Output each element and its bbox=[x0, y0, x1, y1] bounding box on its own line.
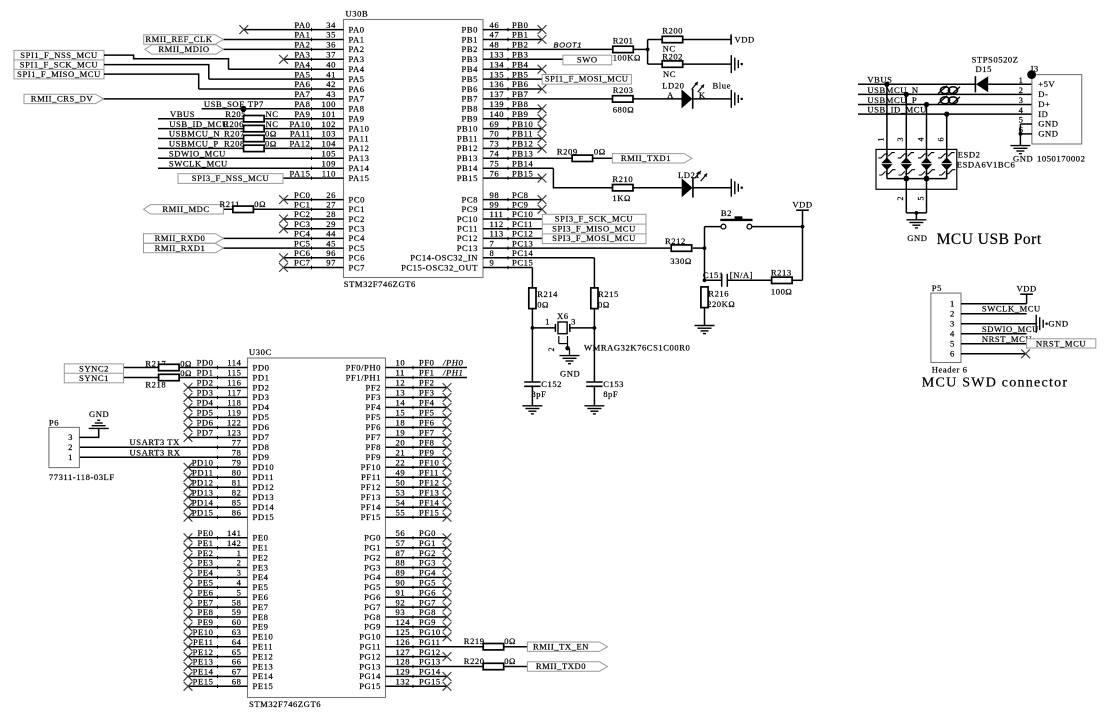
svg-text:PC3: PC3 bbox=[294, 219, 310, 229]
svg-text:PA10: PA10 bbox=[349, 123, 370, 133]
svg-text:PD14: PD14 bbox=[192, 497, 214, 507]
svg-text:139: 139 bbox=[490, 99, 505, 109]
svg-text:PF10: PF10 bbox=[361, 462, 381, 472]
svg-text:PA11: PA11 bbox=[349, 133, 370, 143]
svg-text:69: 69 bbox=[490, 119, 500, 129]
svg-text:46: 46 bbox=[490, 20, 500, 30]
svg-text:PB5: PB5 bbox=[512, 69, 528, 79]
svg-text:41: 41 bbox=[326, 69, 336, 79]
svg-text:R200: R200 bbox=[662, 25, 683, 35]
resistor R212 330ohm on PC13 bbox=[665, 236, 692, 266]
svg-text:0Ω: 0Ω bbox=[504, 636, 516, 646]
svg-text:PG12: PG12 bbox=[359, 651, 381, 661]
svg-text:U30C: U30C bbox=[249, 347, 272, 357]
svg-text:PF3: PF3 bbox=[419, 388, 435, 398]
svg-text:70: 70 bbox=[490, 129, 500, 139]
svg-text:PB11: PB11 bbox=[512, 129, 533, 139]
svg-text:PD10: PD10 bbox=[253, 462, 275, 472]
resistor R207 (USBMCU_N, 0ohm) on PA11 bbox=[169, 129, 277, 142]
svg-text:77311-118-03LF: 77311-118-03LF bbox=[49, 472, 115, 482]
svg-text:PB11: PB11 bbox=[457, 133, 478, 143]
svg-text:SPI3_F_SCK_MCU: SPI3_F_SCK_MCU bbox=[555, 214, 634, 224]
svg-text:PC7: PC7 bbox=[349, 262, 366, 272]
LED LD20 Blue bbox=[662, 80, 731, 109]
svg-text:B2: B2 bbox=[721, 208, 732, 218]
svg-text:PA3: PA3 bbox=[294, 50, 310, 60]
connector P5 Header 6 (SWD) bbox=[931, 283, 968, 374]
svg-text:74: 74 bbox=[490, 149, 500, 159]
svg-text:PD12: PD12 bbox=[253, 482, 275, 492]
svg-text:PG1: PG1 bbox=[364, 543, 381, 553]
svg-text:92: 92 bbox=[396, 597, 406, 607]
svg-text:PB8: PB8 bbox=[512, 99, 528, 109]
svg-text:D15: D15 bbox=[976, 64, 992, 74]
svg-text:127: 127 bbox=[396, 647, 411, 657]
svg-text:ESD2: ESD2 bbox=[958, 149, 981, 159]
svg-text:R218: R218 bbox=[145, 380, 166, 390]
resistor R202 (NC) bbox=[662, 51, 683, 79]
wire R203 to LED LD20 bbox=[633, 98, 682, 100]
svg-text:USBMCU_P: USBMCU_P bbox=[867, 95, 917, 105]
svg-text:PB7: PB7 bbox=[462, 94, 479, 104]
svg-text:0Ω: 0Ω bbox=[537, 300, 549, 310]
svg-text:PB3: PB3 bbox=[462, 54, 478, 64]
svg-text:0Ω: 0Ω bbox=[254, 199, 266, 209]
wire junction up to button B2 bbox=[704, 227, 706, 249]
svg-text:RMII_RXD0: RMII_RXD0 bbox=[155, 233, 206, 243]
svg-text:MCU USB Port: MCU USB Port bbox=[937, 231, 1042, 248]
svg-text:PE5: PE5 bbox=[253, 582, 269, 592]
svg-text:PE8: PE8 bbox=[253, 612, 269, 622]
svg-text:PE4: PE4 bbox=[198, 568, 214, 578]
svg-text:5: 5 bbox=[237, 587, 242, 597]
svg-text:20: 20 bbox=[396, 438, 406, 448]
svg-text:Blue: Blue bbox=[713, 80, 731, 90]
svg-text:PA8: PA8 bbox=[294, 99, 310, 109]
svg-text:PF10: PF10 bbox=[419, 458, 439, 468]
svg-text:PA4: PA4 bbox=[349, 64, 365, 74]
node RMII_MDIO (to PA2) bbox=[145, 44, 224, 54]
svg-text:PB15: PB15 bbox=[457, 173, 478, 183]
svg-text:PC12: PC12 bbox=[457, 233, 478, 243]
svg-text:PD15: PD15 bbox=[253, 512, 275, 522]
svg-text:5: 5 bbox=[916, 196, 925, 201]
svg-text:99: 99 bbox=[490, 200, 500, 210]
svg-text:PB6: PB6 bbox=[512, 79, 529, 89]
svg-text:PE15: PE15 bbox=[253, 681, 274, 691]
svg-text:1: 1 bbox=[877, 137, 886, 142]
svg-text:GND: GND bbox=[1038, 129, 1058, 139]
svg-text:PC11: PC11 bbox=[512, 219, 533, 229]
svg-text:GND: GND bbox=[1013, 154, 1033, 164]
svg-text:PC5: PC5 bbox=[349, 243, 365, 253]
svg-text:PF12: PF12 bbox=[361, 482, 381, 492]
svg-text:GND: GND bbox=[1038, 119, 1058, 129]
svg-text:76: 76 bbox=[490, 168, 500, 178]
svg-text:PG9: PG9 bbox=[364, 622, 381, 632]
svg-text:0Ω: 0Ω bbox=[265, 129, 277, 139]
svg-text:PB0: PB0 bbox=[462, 24, 478, 34]
svg-text:0Ω: 0Ω bbox=[594, 146, 606, 156]
svg-text:PE14: PE14 bbox=[253, 671, 274, 681]
svg-text:PF6: PF6 bbox=[419, 418, 435, 428]
svg-text:2: 2 bbox=[237, 558, 242, 568]
svg-text:128: 128 bbox=[396, 657, 411, 667]
svg-text:SPI3_F_MOSI_MCU: SPI3_F_MOSI_MCU bbox=[552, 233, 636, 243]
svg-text:PF9: PF9 bbox=[419, 448, 435, 458]
resistor R205 (VBUS, NC) on PA9 bbox=[170, 109, 279, 122]
svg-text:PD1: PD1 bbox=[253, 372, 270, 382]
resistor R216 220Kohm bbox=[701, 287, 735, 309]
svg-text:PE11: PE11 bbox=[193, 637, 214, 647]
svg-text:PG15: PG15 bbox=[419, 677, 441, 687]
svg-text:PE3: PE3 bbox=[198, 558, 214, 568]
svg-text:PG5: PG5 bbox=[419, 578, 436, 588]
junction dots on USB lines bbox=[884, 82, 949, 117]
wire LD20 cathode to ground bbox=[693, 98, 732, 100]
svg-text:PE9: PE9 bbox=[253, 622, 269, 632]
svg-text:PD7: PD7 bbox=[253, 432, 270, 442]
svg-text:PD4: PD4 bbox=[253, 402, 270, 412]
svg-text:102: 102 bbox=[321, 119, 336, 129]
svg-text:SPI3_F_NSS_MCU: SPI3_F_NSS_MCU bbox=[192, 173, 270, 183]
svg-text:PB9: PB9 bbox=[462, 114, 478, 124]
svg-text:RMII_MDIO: RMII_MDIO bbox=[158, 44, 209, 54]
svg-text:RMII_REF_CLK: RMII_REF_CLK bbox=[145, 34, 212, 44]
svg-text:R208: R208 bbox=[224, 139, 245, 149]
svg-text:PC10: PC10 bbox=[512, 209, 533, 219]
svg-text:97: 97 bbox=[326, 258, 336, 268]
svg-text:PF7: PF7 bbox=[365, 432, 381, 442]
svg-text:PD6: PD6 bbox=[253, 422, 270, 432]
wire junction down to C151 row bbox=[703, 248, 707, 282]
wire USB_ID_MCU net to J3 pin4 bbox=[858, 105, 1032, 115]
svg-text:9: 9 bbox=[490, 258, 495, 268]
wire P5 pin6 (n/c) bbox=[961, 349, 1030, 358]
resistor R215 0ohm bbox=[591, 288, 619, 310]
svg-text:R201: R201 bbox=[613, 36, 634, 46]
svg-text:PG14: PG14 bbox=[359, 671, 381, 681]
svg-text:PG10: PG10 bbox=[359, 632, 381, 642]
node RMII_RXD1 (to PC5) bbox=[144, 243, 224, 253]
wire VDD rail down to R213 bbox=[802, 227, 804, 281]
svg-text:48: 48 bbox=[490, 40, 500, 50]
wire P5 pin1 to VDD bbox=[961, 294, 1027, 304]
power VDD above P5 pin1 bbox=[1016, 284, 1036, 295]
ground (right of LD20) bbox=[730, 90, 732, 108]
svg-text:PG13: PG13 bbox=[419, 657, 441, 667]
svg-text:SPI3_F_MISO_MCU: SPI3_F_MISO_MCU bbox=[552, 223, 636, 233]
svg-text:77: 77 bbox=[232, 438, 242, 448]
svg-text:PA0: PA0 bbox=[294, 20, 310, 30]
svg-text:PD12: PD12 bbox=[192, 478, 214, 488]
svg-text:330Ω: 330Ω bbox=[670, 256, 691, 266]
svg-text:PB4: PB4 bbox=[462, 64, 479, 74]
svg-text:PE6: PE6 bbox=[253, 592, 269, 602]
svg-text:PF14: PF14 bbox=[419, 497, 440, 507]
svg-text:VBUS: VBUS bbox=[170, 109, 195, 119]
svg-text:PE0: PE0 bbox=[253, 533, 269, 543]
svg-text:PC14-OSC32_IN: PC14-OSC32_IN bbox=[410, 253, 478, 263]
svg-text:PF14: PF14 bbox=[361, 502, 382, 512]
svg-text:PC7: PC7 bbox=[294, 258, 311, 268]
svg-text:PB12: PB12 bbox=[512, 139, 533, 149]
svg-text:PA14: PA14 bbox=[349, 163, 370, 173]
svg-text:8pF: 8pF bbox=[603, 389, 618, 399]
svg-text:R213: R213 bbox=[771, 267, 792, 277]
wire SPI1_F_NSS_MCU to PA4 bbox=[104, 55, 229, 69]
svg-text:PC9: PC9 bbox=[512, 200, 528, 210]
wires USB nets down to ESD2 array (pins 1,3,4,6) bbox=[877, 84, 947, 178]
svg-text:PD2: PD2 bbox=[197, 378, 214, 388]
svg-text:D+: D+ bbox=[1038, 99, 1050, 109]
svg-text:PG5: PG5 bbox=[364, 582, 381, 592]
ground GND under crystal bbox=[560, 356, 581, 379]
svg-text:3: 3 bbox=[1019, 95, 1024, 105]
svg-text:0Ω: 0Ω bbox=[265, 139, 277, 149]
svg-text:1050170002: 1050170002 bbox=[1037, 154, 1085, 164]
svg-text:PA8: PA8 bbox=[349, 104, 365, 114]
ground below C153 bbox=[584, 405, 604, 407]
svg-text:27: 27 bbox=[326, 200, 336, 210]
svg-text:PC4: PC4 bbox=[349, 233, 366, 243]
svg-text:PC14: PC14 bbox=[512, 248, 533, 258]
svg-text:0Ω: 0Ω bbox=[180, 358, 192, 368]
svg-text:PE2: PE2 bbox=[253, 552, 269, 562]
svg-text:USBMCU_P: USBMCU_P bbox=[169, 139, 219, 149]
svg-text:PB0: PB0 bbox=[512, 20, 528, 30]
svg-text:P5: P5 bbox=[932, 283, 942, 293]
svg-text:PB1: PB1 bbox=[512, 30, 528, 40]
svg-text:PE12: PE12 bbox=[193, 647, 214, 657]
svg-text:SPI1_F_MISO_MCU: SPI1_F_MISO_MCU bbox=[17, 69, 101, 79]
ground below C152 bbox=[522, 405, 542, 407]
svg-text:1: 1 bbox=[1019, 75, 1024, 85]
wire P5 pin2 SWCLK_MCU bbox=[961, 304, 1041, 314]
svg-text:R207: R207 bbox=[224, 129, 245, 139]
svg-text:PC11: PC11 bbox=[457, 224, 478, 234]
svg-text:PC5: PC5 bbox=[294, 238, 310, 248]
svg-text:85: 85 bbox=[232, 497, 242, 507]
svg-text:VDD: VDD bbox=[792, 200, 812, 210]
svg-text:GND: GND bbox=[1048, 319, 1068, 329]
svg-text:101: 101 bbox=[321, 109, 336, 119]
svg-text:PD5: PD5 bbox=[197, 408, 214, 418]
node box NRST_MCU bbox=[1027, 338, 1096, 348]
svg-text:PA0: PA0 bbox=[349, 24, 365, 34]
svg-text:PF2: PF2 bbox=[419, 378, 435, 388]
crystal X6 WMRAG32K76CS1C00R0 bbox=[532, 311, 690, 353]
node box SPI1_F_MOSI_MCU on PB5 bbox=[542, 74, 631, 85]
svg-text:PA15: PA15 bbox=[349, 173, 370, 183]
svg-text:PB13: PB13 bbox=[457, 153, 478, 163]
svg-text:PA9: PA9 bbox=[294, 109, 310, 119]
svg-text:2: 2 bbox=[1019, 85, 1024, 95]
svg-text:91: 91 bbox=[396, 587, 406, 597]
svg-text:8: 8 bbox=[490, 248, 495, 258]
svg-text:PC10: PC10 bbox=[457, 214, 478, 224]
svg-text:58: 58 bbox=[232, 597, 242, 607]
svg-text:PF9: PF9 bbox=[365, 452, 381, 462]
no-connect X marks, U30B left side bbox=[239, 25, 288, 272]
capacitor C152 8pF bbox=[524, 379, 562, 406]
svg-text:PE4: PE4 bbox=[253, 572, 269, 582]
svg-text:PA7: PA7 bbox=[294, 89, 310, 99]
svg-text:PC13: PC13 bbox=[457, 243, 478, 253]
svg-text:PF1: PF1 bbox=[419, 368, 435, 378]
svg-text:TP7: TP7 bbox=[248, 99, 264, 109]
LED LD21 bbox=[678, 170, 707, 198]
svg-text:43: 43 bbox=[326, 89, 336, 99]
svg-text:103: 103 bbox=[321, 129, 336, 139]
svg-text:PF0/PH0: PF0/PH0 bbox=[346, 362, 381, 372]
svg-text:PD1: PD1 bbox=[197, 368, 214, 378]
svg-text:PG8: PG8 bbox=[419, 607, 436, 617]
svg-text:PD11: PD11 bbox=[192, 468, 213, 478]
connector P6 77311-118-03LF bbox=[49, 417, 115, 482]
svg-text:115: 115 bbox=[227, 368, 241, 378]
svg-text:PG0: PG0 bbox=[419, 528, 436, 538]
svg-text:82: 82 bbox=[232, 487, 242, 497]
svg-text:100: 100 bbox=[321, 99, 336, 109]
svg-text:11: 11 bbox=[396, 368, 405, 378]
svg-text:53: 53 bbox=[396, 487, 406, 497]
svg-text:1: 1 bbox=[950, 298, 955, 308]
connector J3 1050170002 (MCU USB receptacle) bbox=[1019, 63, 1086, 163]
svg-text:PG1: PG1 bbox=[419, 538, 436, 548]
svg-text:29: 29 bbox=[326, 219, 336, 229]
svg-text:SPI1_F_NSS_MCU: SPI1_F_NSS_MCU bbox=[20, 50, 98, 60]
ground GND above P6 pin3 bbox=[89, 409, 110, 428]
svg-text:PA15: PA15 bbox=[290, 168, 311, 178]
svg-text:3: 3 bbox=[950, 318, 955, 328]
ground below ESD2 bbox=[906, 220, 927, 243]
capacitor C153 8pF bbox=[586, 379, 624, 406]
svg-text:63: 63 bbox=[232, 627, 242, 637]
svg-text:PD10: PD10 bbox=[192, 458, 214, 468]
svg-text:MCU SWD connector: MCU SWD connector bbox=[922, 375, 1068, 390]
wire R212 to junction node bbox=[693, 246, 707, 250]
svg-text:PA5: PA5 bbox=[349, 74, 365, 84]
svg-text:PC8: PC8 bbox=[462, 194, 478, 204]
svg-text:PD11: PD11 bbox=[253, 472, 274, 482]
svg-text:PD2: PD2 bbox=[253, 382, 270, 392]
svg-text:PD4: PD4 bbox=[197, 398, 214, 408]
svg-text:VDD: VDD bbox=[1016, 284, 1036, 294]
svg-text:USB_ID_MCU: USB_ID_MCU bbox=[169, 119, 229, 129]
svg-text:/PH1: /PH1 bbox=[442, 368, 463, 378]
svg-text:87: 87 bbox=[396, 548, 406, 558]
svg-text:PB6: PB6 bbox=[462, 84, 479, 94]
svg-text:RMII_CRS_DV: RMII_CRS_DV bbox=[31, 94, 94, 104]
svg-text:NC: NC bbox=[663, 69, 676, 79]
svg-text:PD0: PD0 bbox=[197, 358, 214, 368]
svg-text:PB2: PB2 bbox=[462, 44, 478, 54]
svg-text:PF4: PF4 bbox=[419, 398, 435, 408]
svg-text:PC1: PC1 bbox=[349, 204, 365, 214]
svg-text:PB2: PB2 bbox=[512, 40, 528, 50]
svg-text:42: 42 bbox=[326, 79, 336, 89]
svg-text:NC: NC bbox=[266, 119, 279, 129]
svg-text:220KΩ: 220KΩ bbox=[707, 299, 735, 309]
svg-text:PD5: PD5 bbox=[253, 412, 270, 422]
U30C left pin stubs, numbers and names (PD0-PD15, PE0-PE15) bbox=[79, 358, 247, 688]
svg-text:PE13: PE13 bbox=[253, 661, 274, 671]
svg-text:1KΩ: 1KΩ bbox=[612, 193, 631, 203]
svg-text:4: 4 bbox=[950, 328, 955, 338]
svg-text:10: 10 bbox=[396, 358, 406, 368]
power VDD above B2 bbox=[792, 200, 812, 229]
svg-text:3: 3 bbox=[237, 568, 242, 578]
svg-text:PB15: PB15 bbox=[512, 168, 533, 178]
node RMII_TXD0 bbox=[527, 661, 607, 671]
resistor R218 0ohm on PD1 bbox=[145, 368, 192, 389]
svg-text:PA3: PA3 bbox=[349, 54, 365, 64]
svg-text:PF13: PF13 bbox=[419, 487, 439, 497]
svg-text:PG9: PG9 bbox=[419, 617, 436, 627]
svg-text:GND: GND bbox=[89, 409, 109, 419]
svg-text:PC15: PC15 bbox=[512, 258, 533, 268]
node RMII_MDC (to PC1) bbox=[144, 204, 224, 214]
ground (right of R202) bbox=[730, 55, 732, 73]
svg-text:PG12: PG12 bbox=[419, 647, 441, 657]
svg-text:PB5: PB5 bbox=[462, 74, 478, 84]
svg-text:SPI1_F_SCK_MCU: SPI1_F_SCK_MCU bbox=[20, 59, 99, 69]
svg-text:WMRAG32K76CS1C00R0: WMRAG32K76CS1C00R0 bbox=[584, 343, 690, 353]
svg-text:98: 98 bbox=[490, 190, 500, 200]
svg-text:PA2: PA2 bbox=[294, 40, 310, 50]
svg-text:PD13: PD13 bbox=[253, 492, 275, 502]
wire SPI1_F_MISO_MCU to PA6 bbox=[104, 74, 199, 89]
svg-text:78: 78 bbox=[232, 448, 242, 458]
svg-text:SYNC1: SYNC1 bbox=[79, 373, 109, 383]
svg-text:110: 110 bbox=[322, 168, 336, 178]
svg-text:C151: C151 bbox=[703, 270, 724, 280]
svg-text:PG14: PG14 bbox=[419, 667, 441, 677]
wire USBMCU_N net to J3 pin2 bbox=[858, 85, 1032, 95]
svg-text:34: 34 bbox=[326, 20, 336, 30]
svg-text:112: 112 bbox=[490, 219, 504, 229]
svg-text:PD8: PD8 bbox=[253, 442, 270, 452]
svg-text:7: 7 bbox=[490, 238, 495, 248]
resistor R219 0ohm on PG11 bbox=[464, 636, 516, 650]
svg-text:15: 15 bbox=[396, 408, 406, 418]
svg-text:PE7: PE7 bbox=[198, 597, 214, 607]
svg-text:PA7: PA7 bbox=[349, 94, 365, 104]
svg-text:PF0: PF0 bbox=[419, 358, 435, 368]
svg-text:73: 73 bbox=[490, 139, 500, 149]
wire LD21 cathode to ground bbox=[693, 187, 731, 189]
svg-text:5: 5 bbox=[950, 338, 955, 348]
wire R219 to RMII_TX_EN flag bbox=[504, 646, 528, 648]
svg-text:6: 6 bbox=[937, 137, 946, 142]
svg-text:36: 36 bbox=[326, 40, 336, 50]
svg-text:50: 50 bbox=[396, 478, 406, 488]
svg-text:PE2: PE2 bbox=[198, 548, 214, 558]
svg-text:PC6: PC6 bbox=[294, 248, 311, 258]
wire R216 to ground bbox=[704, 308, 706, 326]
svg-text:PG11: PG11 bbox=[419, 637, 440, 647]
svg-text:PF11: PF11 bbox=[361, 472, 381, 482]
svg-text:3: 3 bbox=[68, 432, 73, 442]
resistor R209 0ohm on PB13 bbox=[557, 146, 606, 161]
svg-text:PD3: PD3 bbox=[197, 388, 214, 398]
svg-text:C153: C153 bbox=[603, 379, 624, 389]
svg-text:6: 6 bbox=[950, 348, 955, 358]
svg-text:0Ω: 0Ω bbox=[180, 368, 192, 378]
svg-text:USB_SOF: USB_SOF bbox=[204, 99, 245, 109]
svg-text:28: 28 bbox=[326, 209, 336, 219]
